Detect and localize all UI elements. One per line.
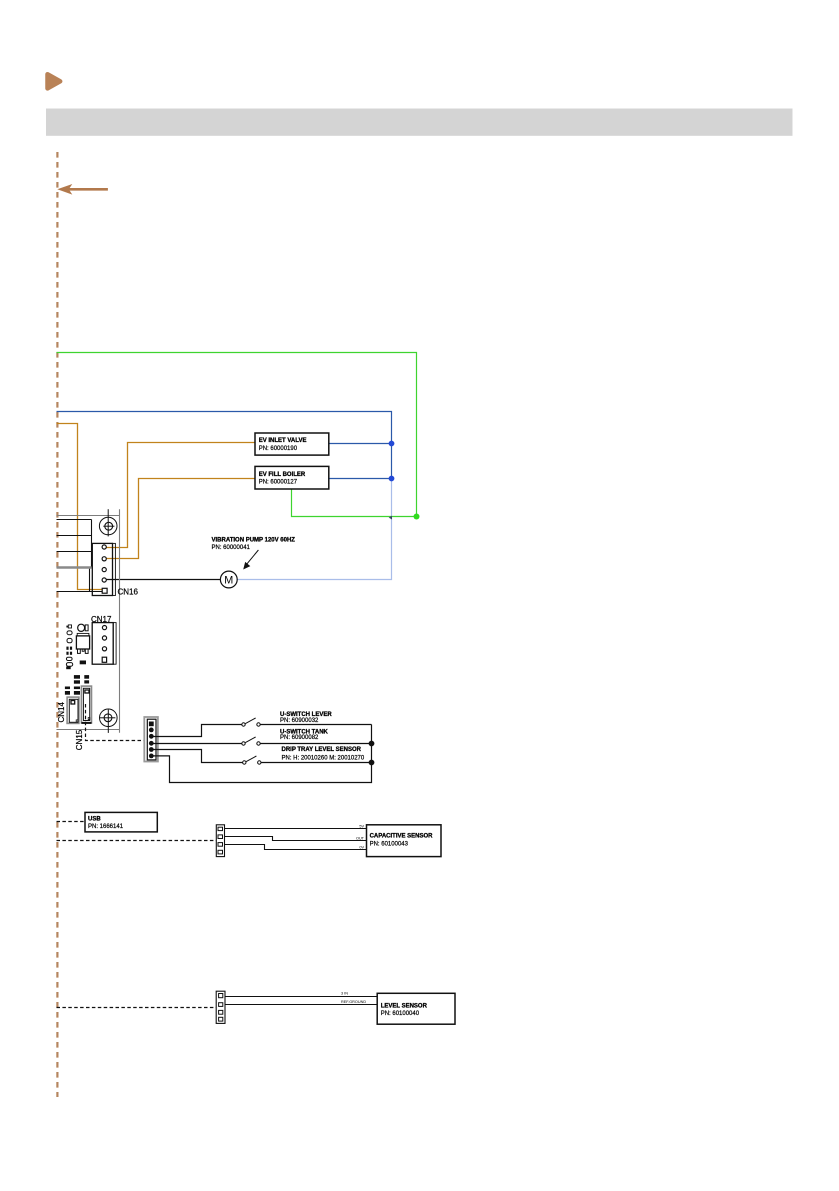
wire light blue to pump bbox=[237, 479, 392, 580]
wire level pin1 bbox=[225, 996, 377, 998]
svg-text:VIBRATION PUMP 120V 60HZ: VIBRATION PUMP 120V 60HZ bbox=[212, 537, 296, 543]
wire CN16 pin4 to motor bbox=[106, 579, 220, 581]
svg-text:OUT: OUT bbox=[356, 837, 365, 841]
wire common return bbox=[153, 725, 372, 783]
wire green main bbox=[57, 353, 417, 517]
transistor Q1 bbox=[76, 633, 89, 653]
pin 1 CN17 bbox=[102, 626, 106, 630]
svg-text:REF.GROUND: REF.GROUND bbox=[341, 1000, 366, 1004]
node junction drip tray bbox=[369, 760, 375, 766]
smd components column bbox=[66, 625, 86, 666]
svg-text:PN: 60000190: PN: 60000190 bbox=[259, 446, 298, 452]
wire orange O1 bbox=[57, 424, 103, 590]
connector CN15 bbox=[81, 686, 91, 723]
switch SW2 tank bbox=[242, 737, 260, 745]
svg-text:PN: 1666141: PN: 1666141 bbox=[88, 824, 124, 830]
switch SW3 drip tray bbox=[243, 756, 261, 764]
switch SW1 lever bbox=[242, 718, 260, 726]
svg-text:PN: 60900082: PN: 60900082 bbox=[280, 735, 319, 741]
svg-text:5V: 5V bbox=[359, 825, 364, 829]
wire orange O2 to CN16 pin1 bbox=[106, 443, 255, 548]
pin 3 bbox=[149, 734, 154, 739]
pin 2 bbox=[149, 728, 154, 733]
pin 5 bbox=[149, 747, 154, 752]
wire cap pin1 bbox=[225, 828, 367, 830]
capacitive sensor dashed wire bbox=[57, 840, 217, 842]
wire drip tray switch row bbox=[153, 750, 243, 763]
USB box bbox=[85, 812, 157, 832]
smd pads bbox=[65, 666, 89, 694]
u-switch labels bbox=[280, 712, 365, 761]
svg-text:PN: 60900032: PN: 60900032 bbox=[280, 718, 319, 724]
pin 2 CN17 bbox=[102, 636, 106, 640]
wire blue to EV INLET VALVE bbox=[329, 443, 392, 445]
level sensor dashed wire bbox=[57, 1007, 217, 1009]
EV FILL BOILER box bbox=[255, 466, 329, 489]
pin 2 CN16 bbox=[102, 557, 106, 561]
svg-text:M: M bbox=[224, 575, 233, 587]
wire cap pin3 0V bbox=[225, 845, 367, 850]
svg-text:LEVEL SENSOR: LEVEL SENSOR bbox=[381, 1003, 428, 1009]
connector CN16 bbox=[92, 543, 138, 596]
wire green from EV FILL BOILER bbox=[292, 489, 417, 517]
left arrow bbox=[57, 184, 108, 195]
connector CN17 bbox=[91, 615, 116, 664]
USB dashed wire bbox=[57, 821, 86, 823]
node blue junction 2 bbox=[389, 476, 395, 482]
wire cap pin2 OUT bbox=[225, 837, 367, 841]
screw hole top bbox=[99, 509, 117, 536]
svg-text:PN: 60100043: PN: 60100043 bbox=[370, 842, 409, 848]
arrow to pump bbox=[243, 550, 258, 570]
svg-text:CAPACITIVE SENSOR: CAPACITIVE SENSOR bbox=[370, 834, 434, 840]
PCB outline bbox=[57, 509, 120, 733]
pin 3 CN16 bbox=[102, 568, 106, 572]
vibration pump label bbox=[212, 537, 296, 551]
svg-text:EV INLET VALVE: EV INLET VALVE bbox=[259, 438, 307, 444]
svg-text:CN16: CN16 bbox=[118, 588, 139, 597]
page border dashed line bbox=[56, 152, 58, 1097]
svg-text:CN15: CN15 bbox=[75, 729, 84, 750]
node light blue crossing marker bbox=[389, 516, 392, 520]
svg-text:EV FILL BOILER: EV FILL BOILER bbox=[259, 472, 306, 478]
pin 1 CN16 bbox=[102, 545, 106, 549]
u-switch connector J1 bbox=[144, 717, 158, 762]
motor M bbox=[220, 571, 237, 588]
wire level pin2 bbox=[225, 1004, 377, 1006]
svg-text:0V: 0V bbox=[359, 846, 364, 850]
svg-text:PN: 60100040: PN: 60100040 bbox=[381, 1011, 420, 1017]
wire blue main bbox=[57, 412, 392, 479]
wire orange O3 to CN16 pin2 bbox=[106, 479, 255, 559]
screw hole bottom bbox=[100, 709, 118, 733]
svg-text:PN: 60000127: PN: 60000127 bbox=[259, 480, 298, 486]
capacitor C1 bbox=[78, 624, 88, 631]
connector CN14 bbox=[67, 697, 79, 723]
pin 1 square bbox=[149, 722, 154, 727]
pin 4 CN17 square bbox=[102, 657, 106, 662]
capacitive sensor connector J2 bbox=[216, 825, 224, 857]
svg-text:DRIP TRAY LEVEL SENSOR: DRIP TRAY LEVEL SENSOR bbox=[282, 747, 362, 753]
pin 3 CN17 bbox=[102, 647, 106, 651]
pin 6 bbox=[149, 754, 154, 759]
level sensor connector J3 bbox=[216, 991, 225, 1023]
svg-text:USB: USB bbox=[88, 816, 101, 822]
node junction tank bbox=[369, 741, 375, 747]
terminal block thick gray divider bbox=[57, 566, 92, 569]
svg-text:3 IN: 3 IN bbox=[341, 992, 348, 996]
svg-text:CN14: CN14 bbox=[57, 702, 66, 723]
pin 4 CN16 bbox=[102, 578, 106, 582]
pin 5 CN16 square bbox=[102, 588, 107, 593]
node blue junction 1 bbox=[389, 441, 395, 447]
dashed wire from CN15 bbox=[86, 704, 145, 741]
EV INLET VALVE box bbox=[255, 433, 329, 455]
wire tank switch row bbox=[153, 743, 242, 745]
wire blue to EV FILL BOILER bbox=[329, 478, 392, 480]
play triangle icon bbox=[48, 74, 61, 88]
svg-text:PN: 60000041: PN: 60000041 bbox=[212, 545, 251, 551]
svg-text:PN: H: 20010260 M: 20010270: PN: H: 20010260 M: 20010270 bbox=[282, 755, 365, 761]
LEVEL SENSOR box bbox=[377, 993, 455, 1024]
header bar bbox=[46, 109, 793, 136]
pin 4 bbox=[149, 741, 154, 746]
terminal blocks left of CN16 bbox=[57, 520, 103, 592]
CAPACITIVE SENSOR box bbox=[367, 825, 442, 857]
wire lever switch row bbox=[153, 725, 242, 737]
node green junction bbox=[414, 514, 420, 520]
